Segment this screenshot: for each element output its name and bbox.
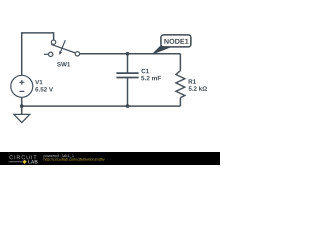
- node junction dot bottom of C1: [126, 104, 130, 108]
- footer text url: [44, 158, 105, 162]
- value label 5.2 mF: [141, 76, 161, 81]
- switch SW1: [44, 40, 80, 57]
- node junction dot top of C1: [126, 52, 130, 56]
- wire bottom rail: [22, 105, 181, 107]
- capacitor C1: [116, 73, 138, 77]
- label C1: [141, 69, 149, 73]
- wire switch to top-right corner: [80, 53, 181, 55]
- node NODE1 balloon: [161, 35, 191, 47]
- node junction dot at V1 bottom: [20, 104, 24, 108]
- wire ground stem: [21, 106, 23, 114]
- resistor R1: [176, 71, 185, 98]
- ground: [14, 114, 30, 122]
- label V1: [35, 80, 42, 84]
- footer bar: [0, 152, 220, 165]
- footer text powered: [44, 154, 74, 158]
- value label 6.52 V: [35, 87, 53, 91]
- label SW1: [57, 62, 70, 66]
- CircuitLab logo yellow diamond: [22, 160, 26, 164]
- CircuitLab logo text CIRCUIT: [9, 155, 36, 159]
- wire right vertical bottom from R1: [179, 98, 181, 107]
- node NODE1 text: [164, 39, 188, 44]
- wire right vertical top to R1: [179, 54, 181, 71]
- CircuitLab logo trace line: [9, 161, 23, 163]
- label R1: [189, 79, 196, 83]
- voltage source V1: [11, 75, 33, 97]
- wire capacitor top branch: [127, 54, 129, 73]
- node NODE1 callout tail: [153, 46, 171, 54]
- wire V1 bottom stub: [21, 97, 23, 106]
- wire V1 top to switch corner: [22, 33, 54, 75]
- wire capacitor bottom branch: [127, 78, 129, 107]
- CircuitLab logo text LAB: [28, 160, 37, 163]
- value label 5.2 kOhm: [189, 86, 207, 91]
